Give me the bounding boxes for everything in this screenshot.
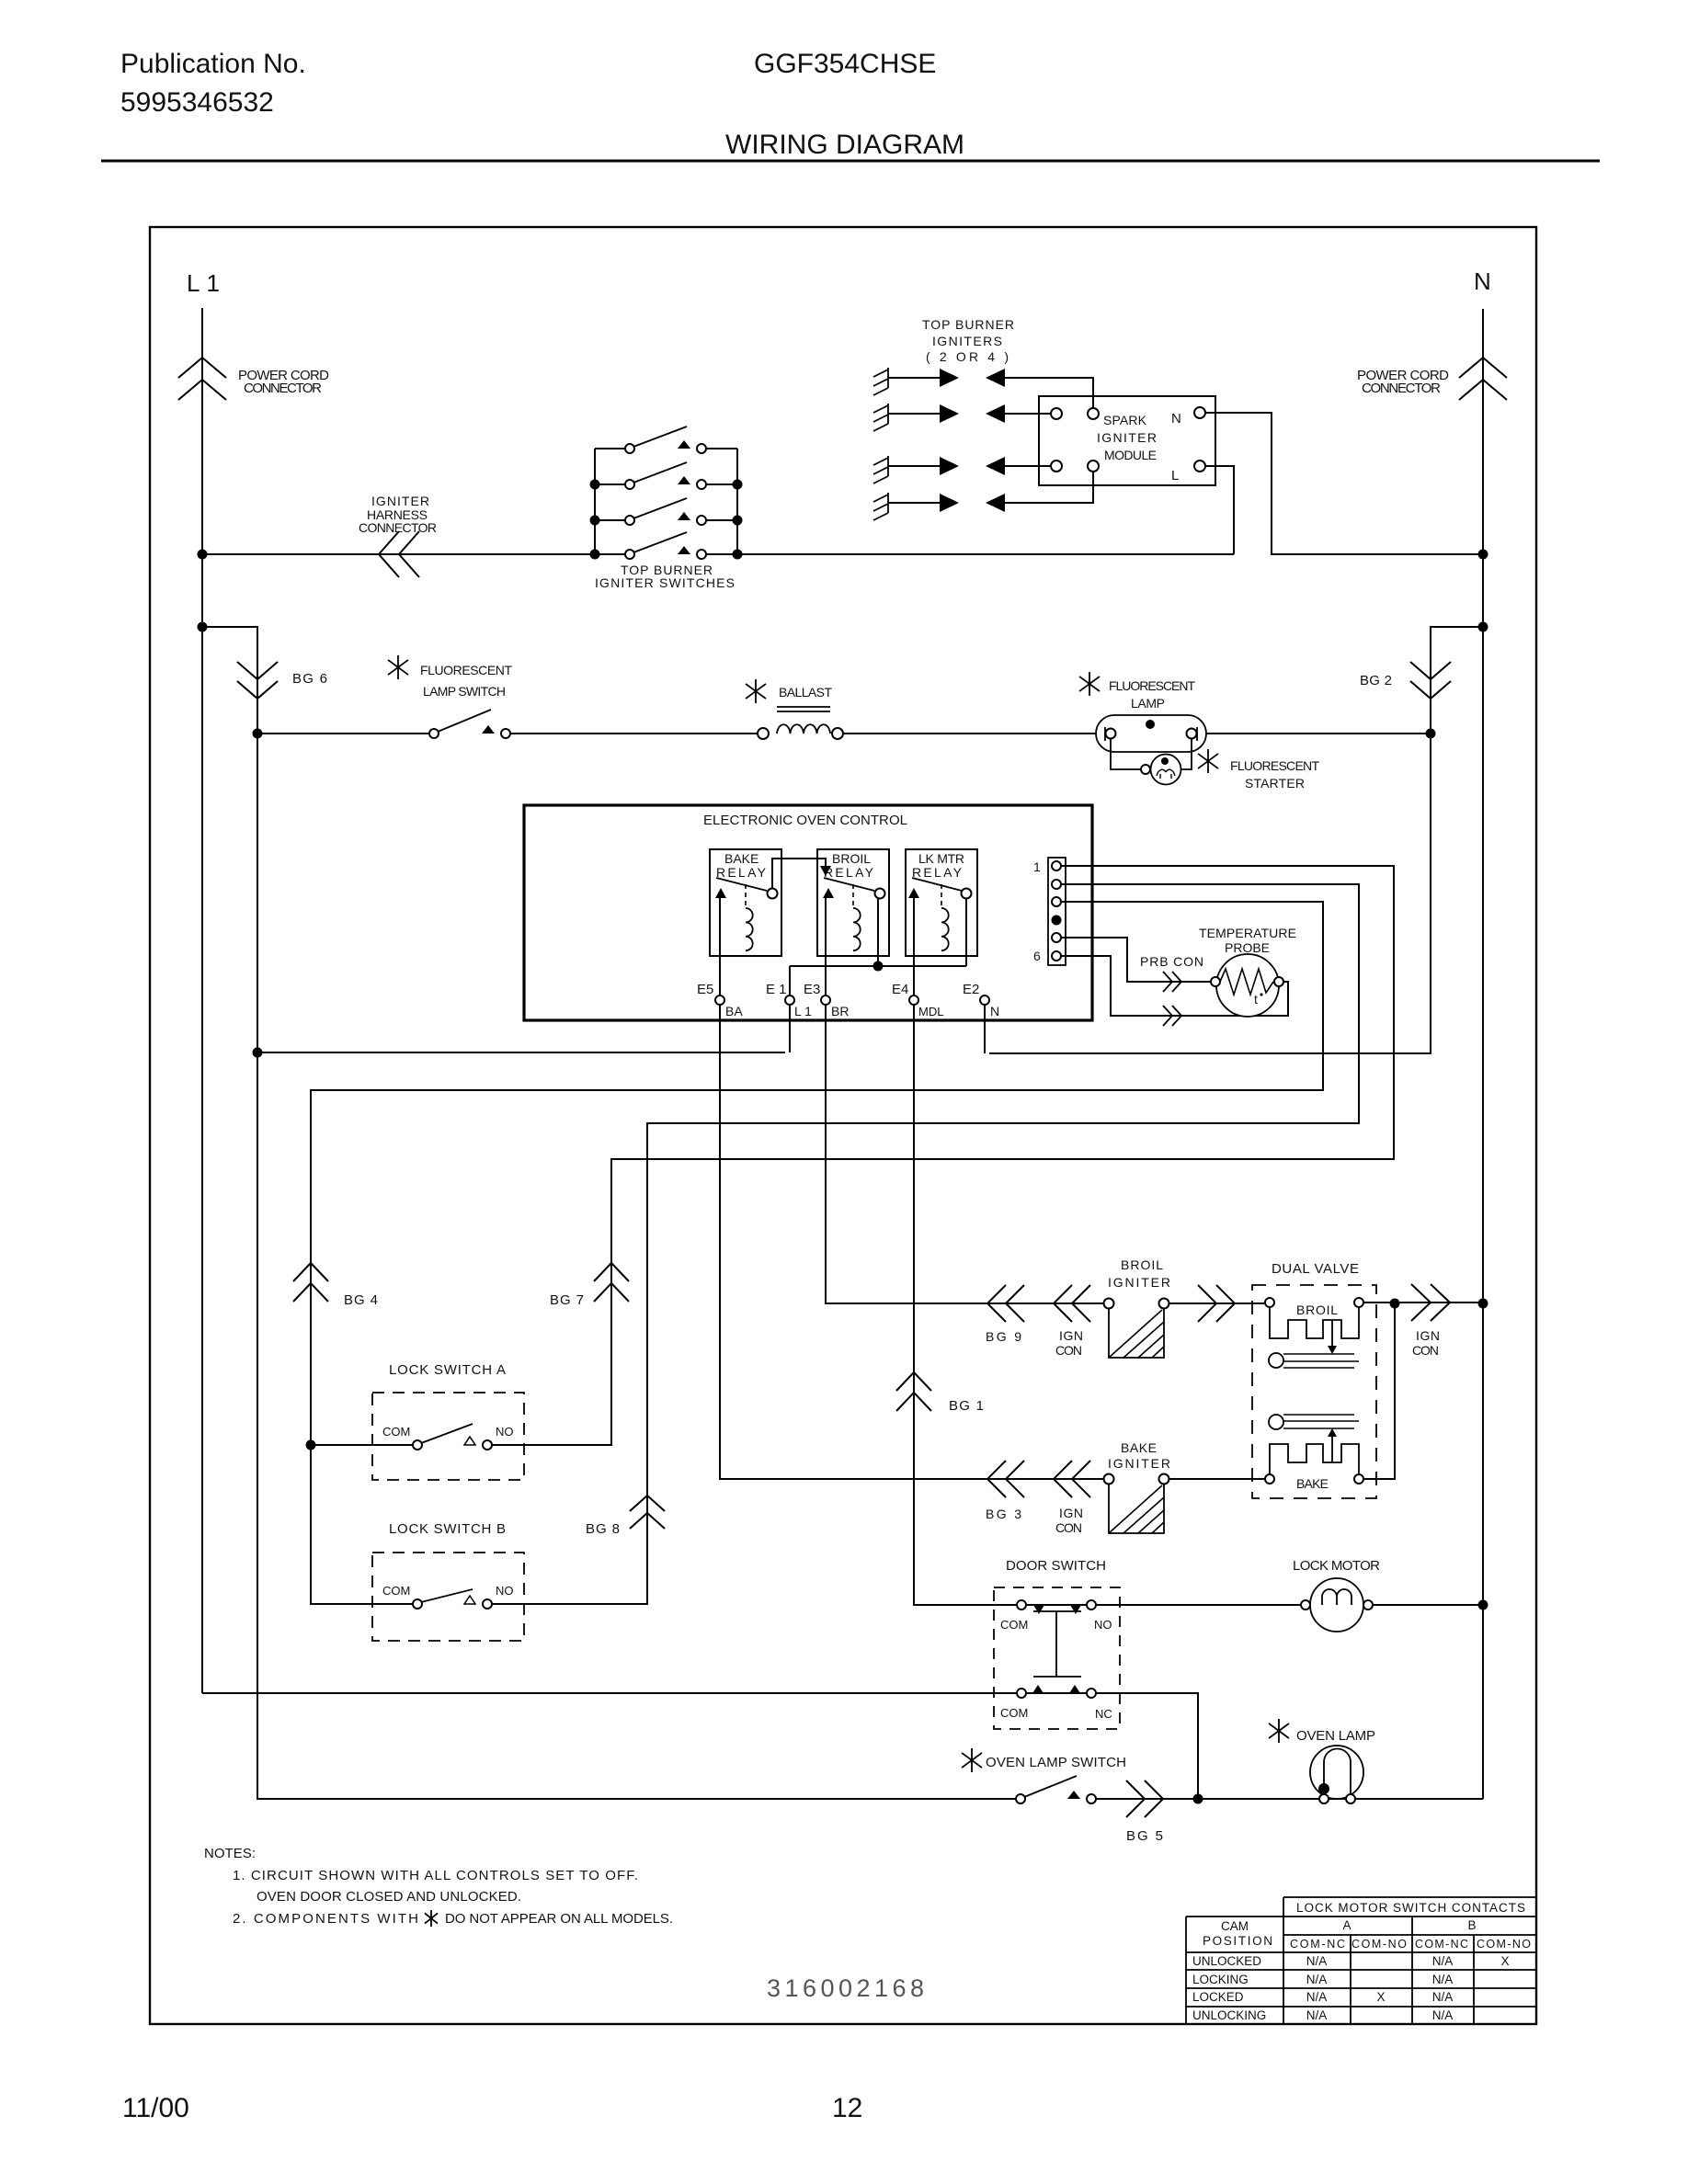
- electronic oven control box: [524, 805, 1092, 1020]
- svg-text:RELAY: RELAY: [912, 865, 963, 880]
- wire L1 to door switch COM lower: [202, 1692, 1017, 1694]
- svg-text:OVEN DOOR CLOSED AND UNLOCKED.: OVEN DOOR CLOSED AND UNLOCKED.: [257, 1889, 521, 1905]
- svg-text:POSITION: POSITION: [1203, 1934, 1272, 1948]
- connector IGN CON bake left: [1054, 1461, 1090, 1497]
- connector IGN CON valve to N: [1411, 1284, 1450, 1321]
- svg-text:BG 1: BG 1: [949, 1398, 984, 1414]
- wire fluorescent row left: [257, 733, 428, 734]
- svg-text:TEMPERATURE: TEMPERATURE: [1199, 926, 1296, 940]
- igniter switch row 3: [595, 519, 625, 521]
- wire lk mtr relay output to rail: [965, 899, 967, 966]
- svg-text:BG 4: BG 4: [344, 1292, 378, 1308]
- connector IGN CON broil right: [1198, 1285, 1235, 1322]
- power cord connector left: [178, 358, 226, 400]
- svg-text:X: X: [1376, 1990, 1385, 2004]
- door switch lower contact COM-NC: [1017, 1689, 1026, 1698]
- svg-text:11/00: 11/00: [122, 2093, 189, 2123]
- svg-text:RELAY: RELAY: [716, 865, 767, 880]
- svg-text:L 1: L 1: [187, 269, 220, 297]
- svg-text:TOP BURNER: TOP BURNER: [922, 317, 1014, 332]
- svg-text:COM: COM: [1000, 1618, 1028, 1632]
- wire lamp to BG2 branch: [1206, 733, 1431, 734]
- svg-text:BG 6: BG 6: [292, 671, 327, 687]
- wire pin3 to BG4 lock switch commons: [311, 902, 1323, 1604]
- fluorescent lamp: [1096, 715, 1206, 752]
- igniter switch row 4: [595, 553, 625, 555]
- wire BR broil line: [826, 898, 1104, 1303]
- svg-text:MDL: MDL: [918, 1005, 943, 1018]
- spark igniter module U1: [1039, 396, 1215, 485]
- svg-text:BROIL: BROIL: [832, 851, 871, 866]
- connector BG 2: [1410, 662, 1451, 699]
- ballast inductor: [758, 728, 769, 739]
- connector BG 9: [987, 1285, 1024, 1322]
- svg-text:CONNECTOR: CONNECTOR: [359, 520, 437, 535]
- top burner igniter 2: [873, 404, 888, 431]
- junction: [590, 516, 600, 526]
- junction fluorescent row: [253, 729, 263, 739]
- svg-text:E5: E5: [697, 982, 713, 997]
- igniter switch row 2: [595, 483, 625, 485]
- wire L1 row to EOC: [257, 1052, 785, 1053]
- svg-text:BG 7: BG 7: [550, 1292, 584, 1308]
- wire oven lamp to N bus: [1329, 1798, 1483, 1800]
- bake igniter element: [1104, 1474, 1114, 1484]
- pin 4 plugged: [1052, 916, 1062, 926]
- svg-text:CON: CON: [1055, 1343, 1082, 1358]
- svg-text:N: N: [1171, 411, 1181, 427]
- svg-text:LK MTR: LK MTR: [918, 851, 964, 866]
- svg-text:BAKE: BAKE: [1296, 1476, 1329, 1491]
- svg-text:1: 1: [1033, 859, 1041, 874]
- wire to ballast: [510, 733, 758, 734]
- svg-text:IGNITER: IGNITER: [1108, 1456, 1170, 1471]
- wire to oven lamp: [1203, 1798, 1319, 1800]
- svg-text:LOCK MOTOR SWITCH CONTACTS: LOCK MOTOR SWITCH CONTACTS: [1296, 1901, 1525, 1915]
- svg-text:LOCK MOTOR: LOCK MOTOR: [1293, 1558, 1380, 1574]
- connector BG 4: [293, 1263, 328, 1302]
- top burner igniter 1: [873, 368, 888, 395]
- wire L1 branch to x=280: [202, 627, 1016, 1799]
- svg-text:BG 9: BG 9: [986, 1329, 1021, 1344]
- svg-text:LOCKING: LOCKING: [1192, 1973, 1249, 1986]
- broil valve outlet: [1331, 1320, 1333, 1347]
- wire bake igniter to valve: [1169, 1478, 1264, 1480]
- svg-text:BAKE: BAKE: [724, 851, 758, 866]
- svg-text:PROBE: PROBE: [1225, 940, 1270, 955]
- asterisk fluorescent lamp switch: [388, 655, 408, 679]
- wire main row to spark module L: [737, 553, 1234, 555]
- wire broil igniter to valve: [1169, 1302, 1264, 1304]
- connector BG 1: [896, 1372, 931, 1411]
- pin header connector: [1048, 858, 1066, 965]
- junction N branch: [1478, 622, 1488, 632]
- wire L1 bus vertical: [201, 308, 203, 1693]
- oven lamp DS1: [1269, 1719, 1289, 1743]
- svg-text:COM: COM: [382, 1584, 410, 1598]
- wire pin1 to BG7 lock switch A NO: [492, 866, 1394, 1445]
- svg-text:UNLOCKING: UNLOCKING: [1192, 2008, 1266, 2022]
- wire broil relay output to rail: [877, 899, 879, 966]
- igniter switch row 1: [595, 448, 625, 449]
- connector BG 6: [237, 662, 278, 699]
- connector BG 8: [630, 1496, 665, 1529]
- svg-text:SPARK: SPARK: [1103, 413, 1147, 427]
- svg-text:BG 3: BG 3: [986, 1507, 1021, 1521]
- junction oven lamp feed: [1193, 1794, 1203, 1804]
- bake valve outlet: [1331, 1436, 1333, 1462]
- svg-text:N/A: N/A: [1306, 2008, 1328, 2022]
- svg-text:OVEN LAMP SWITCH: OVEN LAMP SWITCH: [986, 1755, 1126, 1770]
- svg-text:5995346532: 5995346532: [120, 87, 274, 118]
- svg-text:BROIL: BROIL: [1121, 1257, 1163, 1272]
- svg-text:N/A: N/A: [1306, 1954, 1328, 1968]
- svg-text:CON: CON: [1055, 1520, 1082, 1535]
- svg-text:NOTES:: NOTES:: [204, 1846, 256, 1861]
- wire lock motor to N bus: [1373, 1604, 1483, 1606]
- svg-text:X: X: [1500, 1954, 1509, 1968]
- svg-text:STARTER: STARTER: [1245, 776, 1305, 791]
- power cord connector right: [1459, 358, 1507, 400]
- top burner igniter 3: [873, 456, 888, 483]
- svg-text:B: B: [1467, 1918, 1476, 1932]
- connector IGN CON broil left: [1054, 1285, 1090, 1322]
- wire main L1 row y=603: [202, 553, 625, 555]
- svg-text:BG 5: BG 5: [1126, 1828, 1163, 1844]
- svg-text:FLUORESCENT: FLUORESCENT: [1109, 678, 1195, 693]
- wire pin2 to BG8 lock switch B NO: [492, 884, 1359, 1604]
- junction: [590, 480, 600, 490]
- wire MDL lock motor line: [914, 898, 1017, 1605]
- svg-text:DUAL VALVE: DUAL VALVE: [1272, 1261, 1359, 1277]
- svg-text:LAMP: LAMP: [1131, 696, 1165, 711]
- svg-text:N: N: [990, 1004, 999, 1018]
- junction: [590, 550, 600, 560]
- svg-text:DO NOT APPEAR ON ALL MODELS.: DO NOT APPEAR ON ALL MODELS.: [445, 1911, 673, 1927]
- wire switch right bus: [736, 449, 738, 554]
- svg-text:PRB CON: PRB CON: [1140, 954, 1203, 969]
- svg-text:6: 6: [1033, 949, 1041, 963]
- svg-text:BAKE: BAKE: [1121, 1440, 1157, 1455]
- svg-text:A: A: [1342, 1918, 1351, 1932]
- svg-text:NO: NO: [496, 1425, 514, 1439]
- svg-text:WIRING DIAGRAM: WIRING DIAGRAM: [725, 130, 964, 160]
- svg-text:IGNITER: IGNITER: [1108, 1275, 1170, 1290]
- svg-text:CONNECTOR: CONNECTOR: [1362, 381, 1441, 396]
- svg-text:UNLOCKED: UNLOCKED: [1192, 1954, 1261, 1968]
- svg-text:ELECTRONIC OVEN CONTROL: ELECTRONIC OVEN CONTROL: [703, 813, 907, 828]
- svg-text:NO: NO: [496, 1584, 514, 1598]
- wire door NC to oven lamp row: [1096, 1693, 1198, 1799]
- wire E1 to L1 row: [789, 1005, 791, 1052]
- wire L drop: [1205, 466, 1234, 554]
- svg-text:LOCK SWITCH B: LOCK SWITCH B: [389, 1521, 506, 1537]
- svg-text:CONNECTOR: CONNECTOR: [244, 381, 322, 396]
- wire pin6 probe return: [1061, 956, 1288, 1016]
- connector BG 7: [594, 1263, 629, 1302]
- broil relay K2: [817, 849, 889, 956]
- svg-text:COM-NC: COM-NC: [1290, 1938, 1345, 1951]
- svg-text:L: L: [1171, 468, 1179, 483]
- svg-text:IGN: IGN: [1059, 1328, 1083, 1343]
- wire N branch BG2 to E2: [989, 627, 1483, 1053]
- svg-text:N/A: N/A: [1432, 1973, 1454, 1986]
- svg-text:N: N: [1474, 267, 1491, 295]
- svg-text:GGF354CHSE: GGF354CHSE: [754, 49, 936, 79]
- diagram border frame: [150, 227, 1536, 2024]
- svg-text:CON: CON: [1412, 1343, 1439, 1358]
- svg-text:NO: NO: [1094, 1618, 1112, 1632]
- svg-text:CAM: CAM: [1221, 1919, 1249, 1933]
- header rule: [101, 160, 1600, 163]
- svg-text:IGN: IGN: [1059, 1506, 1083, 1520]
- wire rail to E1: [789, 966, 791, 995]
- svg-text:LAMP SWITCH: LAMP SWITCH: [423, 684, 506, 699]
- svg-text:1. CIRCUIT SHOWN WITH ALL CON: 1. CIRCUIT SHOWN WITH ALL CONTROLS SET T…: [233, 1868, 638, 1883]
- wire BA bake line: [720, 898, 1104, 1479]
- svg-text:BG 2: BG 2: [1360, 673, 1392, 688]
- svg-text:COM: COM: [382, 1425, 410, 1439]
- wire valve common to N bus: [1363, 1302, 1483, 1479]
- fluorescent starter: [1111, 738, 1141, 769]
- fluorescent lamp switch: [429, 729, 439, 738]
- wire switch to BG5: [1096, 1798, 1193, 1800]
- svg-text:BA: BA: [725, 1004, 743, 1018]
- svg-text:IGNITER: IGNITER: [1097, 430, 1157, 445]
- svg-text:12: 12: [832, 2093, 862, 2123]
- wire bake relay output to broil relay input: [772, 859, 826, 889]
- svg-text:FLUORESCENT: FLUORESCENT: [420, 663, 512, 677]
- svg-text:Publication No.: Publication No.: [120, 49, 306, 79]
- connector BG 3: [987, 1461, 1024, 1497]
- svg-text:COM-NO: COM-NO: [1477, 1938, 1531, 1951]
- wire switch left bus: [594, 449, 596, 554]
- asterisk ballast: [746, 679, 766, 703]
- svg-text:LOCKED: LOCKED: [1192, 1990, 1244, 2004]
- svg-text:BG 8: BG 8: [586, 1521, 620, 1537]
- svg-text:N/A: N/A: [1432, 2008, 1454, 2022]
- wire module N to N bus: [1205, 413, 1483, 554]
- wire relay common rail: [790, 965, 966, 967]
- svg-text:IGNITERS: IGNITERS: [932, 334, 1002, 348]
- svg-text:RELAY: RELAY: [824, 865, 874, 880]
- wire E2 down to N return: [984, 1005, 986, 1053]
- svg-text:LOCK SWITCH A: LOCK SWITCH A: [389, 1362, 506, 1378]
- door switch upper contact COM-NO: [1017, 1600, 1026, 1610]
- svg-text:N/A: N/A: [1306, 1990, 1328, 2004]
- svg-text:BR: BR: [831, 1004, 849, 1018]
- svg-text:FLUORESCENT: FLUORESCENT: [1230, 758, 1319, 773]
- svg-text:IGN: IGN: [1416, 1328, 1440, 1343]
- svg-text:N/A: N/A: [1432, 1990, 1454, 2004]
- lock motor relay K3: [906, 849, 977, 956]
- top burner igniter 4: [873, 493, 888, 520]
- junction lock switch A feed: [306, 1440, 316, 1450]
- lock motor switch contacts table: [1283, 1896, 1536, 1898]
- svg-text:E3: E3: [804, 982, 820, 997]
- svg-text:DOOR SWITCH: DOOR SWITCH: [1006, 1558, 1106, 1574]
- svg-text:E2: E2: [963, 982, 979, 997]
- svg-text:N/A: N/A: [1306, 1973, 1328, 1986]
- svg-text:E4: E4: [892, 982, 908, 997]
- svg-text:N/A: N/A: [1432, 1954, 1454, 1968]
- svg-text:COM: COM: [1000, 1706, 1028, 1720]
- bake relay K1: [710, 849, 781, 956]
- svg-text:NC: NC: [1095, 1707, 1112, 1721]
- wire N bus vertical: [1482, 309, 1484, 1799]
- svg-text:OVEN LAMP: OVEN LAMP: [1296, 1728, 1375, 1744]
- svg-text:IGNITER: IGNITER: [371, 494, 429, 508]
- module input terminals: [1051, 408, 1062, 419]
- svg-text:t: t: [1254, 992, 1258, 1007]
- broil igniter element: [1104, 1299, 1114, 1309]
- svg-text:L 1: L 1: [794, 1004, 812, 1018]
- wire ballast to lamp: [843, 733, 1096, 734]
- svg-text:MODULE: MODULE: [1104, 448, 1157, 462]
- svg-text:E 1: E 1: [766, 982, 787, 997]
- oven lamp switch: [1016, 1794, 1025, 1803]
- svg-text:IGNITER SWITCHES: IGNITER SWITCHES: [595, 575, 735, 590]
- svg-text:BROIL: BROIL: [1296, 1302, 1338, 1317]
- svg-text:COM-NC: COM-NC: [1415, 1938, 1468, 1951]
- igniter harness connector: [379, 531, 419, 577]
- door switch gang bar: [1033, 1611, 1081, 1677]
- wire pin5 to probe: [1061, 938, 1211, 982]
- svg-text:316002168: 316002168: [767, 1974, 924, 2002]
- svg-text:BALLAST: BALLAST: [779, 685, 832, 700]
- asterisk oven lamp switch: [962, 1748, 982, 1772]
- connector BG 5: [1126, 1780, 1163, 1817]
- junction L1 branch: [198, 622, 208, 632]
